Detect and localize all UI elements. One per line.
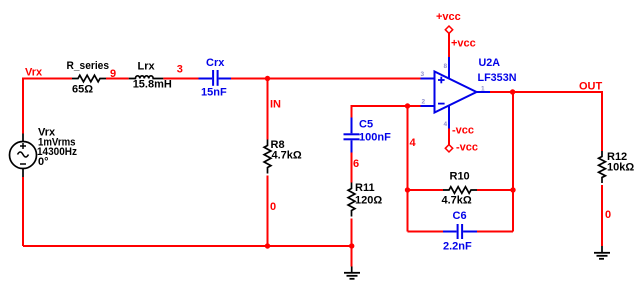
svg-text:OUT: OUT <box>579 80 603 92</box>
svg-text:9: 9 <box>110 68 116 80</box>
svg-text:+vcc: +vcc <box>436 11 461 23</box>
svg-text:C5: C5 <box>359 119 373 131</box>
svg-text:8: 8 <box>444 63 448 70</box>
svg-text:Crx: Crx <box>206 57 225 69</box>
svg-text:65Ω: 65Ω <box>72 84 93 96</box>
svg-text:2: 2 <box>422 99 426 106</box>
svg-text:IN: IN <box>270 98 281 110</box>
svg-text:R_series: R_series <box>67 60 110 72</box>
svg-text:15nF: 15nF <box>201 87 227 99</box>
svg-text:1: 1 <box>481 86 485 93</box>
svg-text:2.2nF: 2.2nF <box>443 241 472 253</box>
svg-text:R10: R10 <box>450 171 470 183</box>
svg-text:6: 6 <box>353 158 359 170</box>
svg-text:+vcc: +vcc <box>451 38 476 50</box>
svg-text:R11: R11 <box>355 182 375 194</box>
svg-text:-vcc: -vcc <box>456 141 478 153</box>
svg-text:15.8mH: 15.8mH <box>133 79 172 91</box>
svg-text:0: 0 <box>605 209 611 221</box>
svg-text:0: 0 <box>270 201 276 213</box>
svg-text:Lrx: Lrx <box>138 61 156 73</box>
svg-text:4: 4 <box>410 137 417 149</box>
svg-text:LF353N: LF353N <box>478 72 517 84</box>
svg-text:10kΩ: 10kΩ <box>607 162 634 174</box>
svg-text:-vcc: -vcc <box>452 125 474 137</box>
svg-text:100nF: 100nF <box>359 132 391 144</box>
svg-text:4.7kΩ: 4.7kΩ <box>272 150 302 162</box>
svg-text:4: 4 <box>444 121 448 128</box>
svg-text:3: 3 <box>421 71 425 78</box>
svg-text:Vrx: Vrx <box>25 67 43 79</box>
svg-text:0°: 0° <box>38 156 49 168</box>
svg-text:3: 3 <box>177 64 183 76</box>
svg-text:U2A: U2A <box>479 57 501 69</box>
svg-text:C6: C6 <box>453 210 467 222</box>
svg-text:4.7kΩ: 4.7kΩ <box>442 195 472 207</box>
svg-text:120Ω: 120Ω <box>355 195 382 207</box>
